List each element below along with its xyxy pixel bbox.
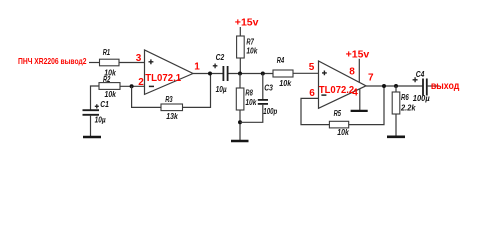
wire input to R1 — [89, 62, 100, 64]
resistor R4 — [273, 56, 293, 88]
wire R7 to bias node — [239, 58, 241, 74]
node feedback junction — [382, 84, 386, 88]
wire R5 to output node — [349, 86, 384, 125]
resistor R5 — [329, 109, 349, 137]
svg-text:10k: 10k — [337, 128, 349, 137]
resistor R3 — [161, 95, 183, 121]
node output1 junction — [208, 72, 212, 76]
op-amp U2 TL072.2 — [319, 61, 367, 108]
pin 2 — [138, 77, 144, 88]
node bias junction — [238, 72, 242, 76]
wire +15v to R7 — [239, 27, 241, 36]
pin 4 — [352, 88, 358, 99]
resistor R1 — [100, 48, 120, 78]
capacitor C4 — [413, 70, 430, 103]
svg-text:C3: C3 — [264, 84, 273, 93]
svg-text:+15v: +15v — [346, 49, 370, 60]
pin 7 — [368, 72, 374, 83]
output label выход — [431, 81, 460, 92]
wire R2 to op-amp pin 2 — [120, 85, 145, 87]
svg-text:R4: R4 — [277, 56, 285, 65]
wire op-amp2 output to C4 — [366, 85, 423, 87]
wire pin 4 to ground — [359, 89, 361, 111]
svg-text:+15v: +15v — [235, 18, 259, 29]
svg-text:10k: 10k — [245, 98, 256, 107]
wire C2 to R4 — [228, 73, 273, 75]
input label ПНЧ XR2206 вывод2 — [18, 56, 87, 66]
svg-text:2: 2 — [138, 77, 144, 88]
node R8-C3 junction — [238, 120, 242, 124]
node pin2 junction — [130, 84, 134, 88]
svg-text:4: 4 — [352, 88, 358, 99]
svg-text:6: 6 — [309, 88, 315, 99]
svg-text:ПНЧ XR2206 вывод2: ПНЧ XR2206 вывод2 — [18, 56, 87, 66]
capacitor C2 — [213, 53, 228, 94]
svg-text:10µ: 10µ — [95, 116, 106, 125]
ground under R6 — [387, 136, 405, 139]
wire bias node to R8 — [239, 74, 241, 89]
svg-text:8: 8 — [349, 67, 355, 78]
wire pin 6 to R5 — [301, 98, 329, 124]
pin 3 — [136, 53, 142, 64]
svg-text:R2: R2 — [103, 75, 111, 84]
wire C1 to ground — [90, 115, 92, 137]
pin 6 — [309, 88, 315, 99]
svg-text:R3: R3 — [165, 95, 173, 104]
ground under C1 — [83, 136, 101, 139]
svg-text:TL072.2: TL072.2 — [319, 85, 355, 96]
svg-text:TL072.1: TL072.1 — [145, 73, 181, 84]
op-amp U1 TL072.1 — [145, 50, 194, 94]
pin 5 — [309, 62, 315, 73]
ground under R8 — [231, 140, 249, 143]
svg-text:C1: C1 — [100, 100, 109, 109]
capacitor C3 — [258, 74, 278, 116]
svg-text:10k: 10k — [105, 90, 117, 99]
wire op-amp1 output to C2 — [193, 73, 223, 75]
wire R3 to output node — [183, 74, 211, 108]
node R6 junction — [394, 84, 398, 88]
svg-text:10µ: 10µ — [216, 85, 227, 94]
svg-text:2.2k: 2.2k — [400, 103, 416, 112]
svg-text:R5: R5 — [334, 109, 342, 118]
svg-text:13k: 13k — [166, 112, 178, 121]
svg-text:R1: R1 — [103, 48, 111, 57]
wire R1 to op-amp pin 3 — [119, 62, 145, 64]
capacitor C1 — [83, 100, 110, 125]
resistor R8 — [236, 88, 257, 110]
resistor R6 — [392, 86, 416, 114]
svg-text:100p: 100p — [263, 107, 277, 116]
svg-text:10k: 10k — [246, 46, 257, 55]
svg-text:C4: C4 — [416, 70, 425, 79]
wire pin2 node down to R3 — [132, 86, 161, 107]
ground under pin 4 — [351, 110, 368, 112]
wire C4 to output — [428, 85, 440, 87]
svg-text:100µ: 100µ — [413, 94, 430, 103]
wire +15v to pin 8 — [358, 59, 360, 83]
svg-text:10k: 10k — [279, 79, 291, 88]
svg-text:выход: выход — [431, 81, 460, 92]
svg-text:R8: R8 — [245, 89, 253, 98]
pin 8 — [349, 67, 355, 78]
resistor R2 — [99, 75, 120, 99]
wire R2 left elbow down to C1 — [91, 86, 100, 110]
svg-text:3: 3 — [136, 53, 142, 64]
svg-text:C2: C2 — [216, 53, 225, 62]
wire R4 to op-amp pin 5 — [293, 72, 319, 74]
+15v supply label 1 — [235, 18, 259, 29]
pin 1 — [194, 62, 200, 73]
wire R6 to ground — [395, 114, 397, 136]
svg-text:R6: R6 — [401, 93, 409, 102]
+15v supply label 2 — [346, 49, 370, 60]
svg-text:1: 1 — [194, 62, 200, 73]
svg-text:5: 5 — [309, 62, 315, 73]
svg-text:7: 7 — [368, 72, 374, 83]
node C3 top junction — [261, 72, 265, 76]
wire C3 bottom to R8 node — [240, 104, 263, 122]
wire R8 to ground — [239, 110, 241, 141]
resistor R7 — [237, 36, 258, 58]
